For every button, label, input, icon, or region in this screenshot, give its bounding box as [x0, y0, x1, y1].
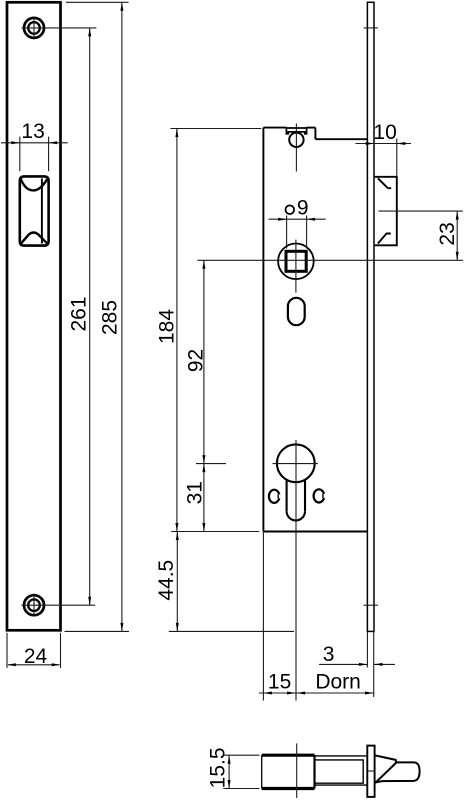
svg-text:9: 9 — [297, 197, 309, 220]
svg-text:31: 31 — [183, 481, 206, 504]
svg-text:10: 10 — [373, 121, 396, 144]
svg-text:23: 23 — [436, 222, 459, 245]
svg-text:15.5: 15.5 — [207, 747, 230, 788]
svg-text:92: 92 — [185, 349, 208, 372]
svg-text:44.5: 44.5 — [155, 560, 178, 601]
svg-text:Dorn: Dorn — [315, 670, 361, 693]
svg-text:13: 13 — [21, 120, 44, 143]
svg-text:15: 15 — [268, 670, 291, 693]
svg-text:261: 261 — [68, 296, 91, 331]
svg-text:184: 184 — [155, 309, 178, 344]
svg-text:3: 3 — [323, 643, 335, 666]
svg-text:285: 285 — [99, 300, 122, 335]
svg-text:24: 24 — [24, 645, 48, 668]
